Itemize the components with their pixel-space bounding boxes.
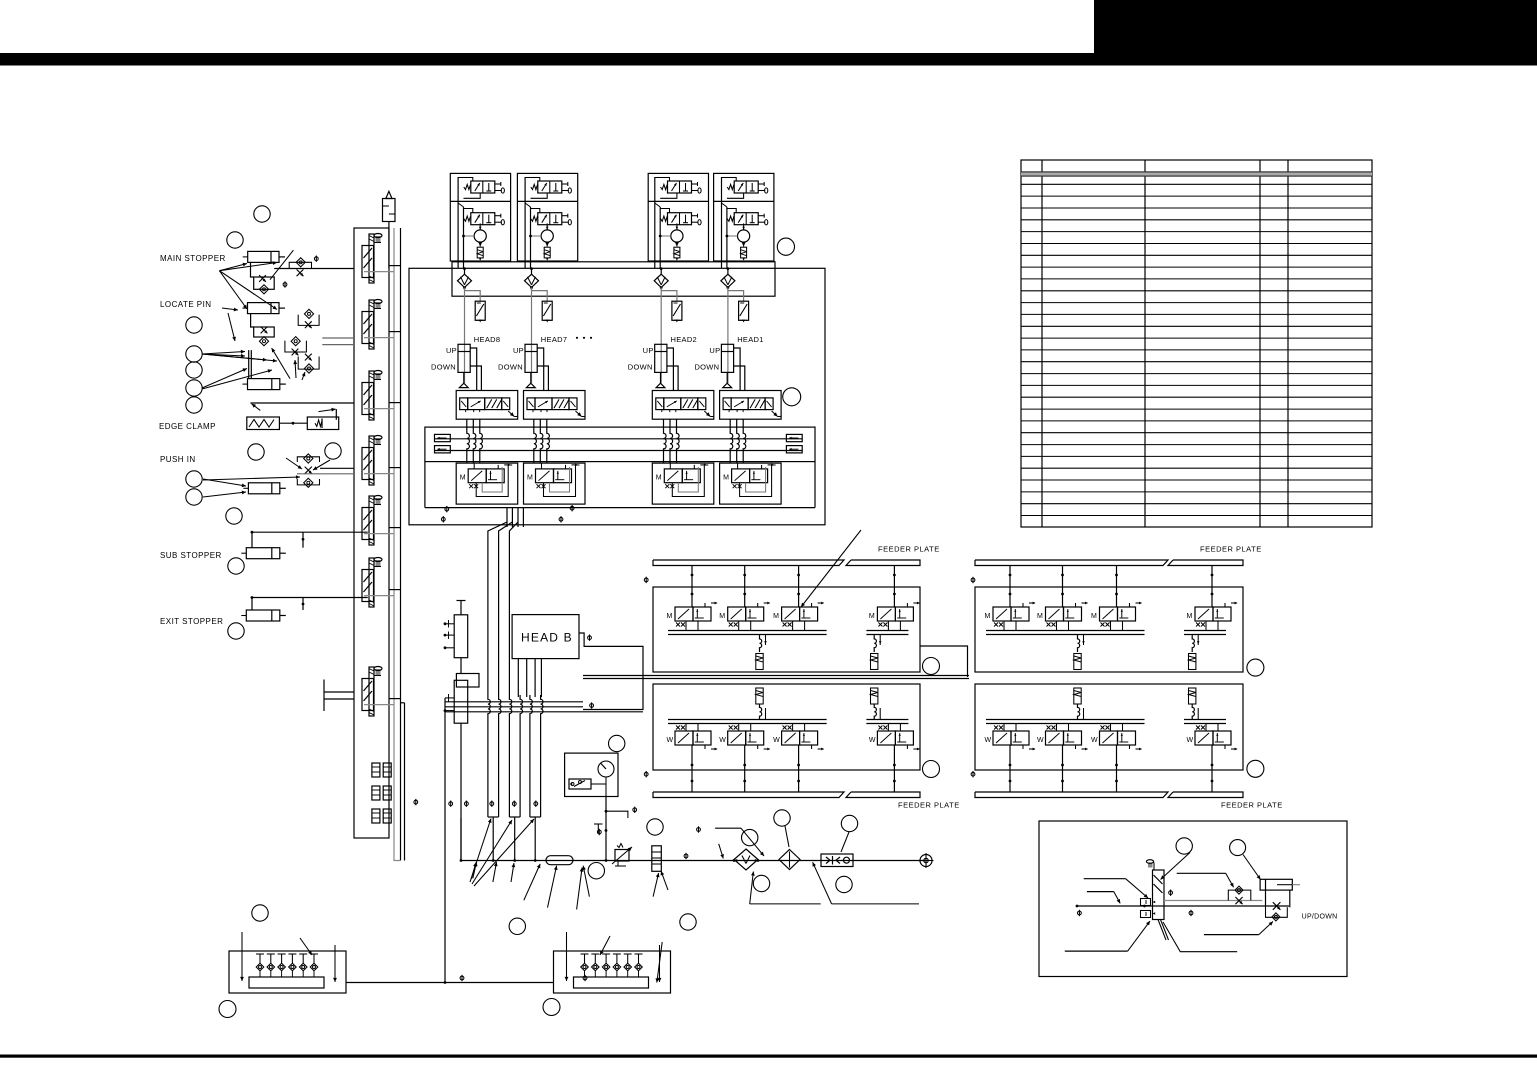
svg-text:UP: UP xyxy=(513,346,524,355)
svg-text:HEAD B: HEAD B xyxy=(521,631,573,645)
feed line head B to feeders xyxy=(579,633,643,710)
air filter HEAD1 xyxy=(721,267,744,301)
leader arrows MAIN STOPPER xyxy=(219,250,293,309)
solenoid valve HEAD7 blow xyxy=(531,181,572,193)
head box wiring HEAD7 xyxy=(525,177,547,268)
manifold column body xyxy=(354,228,389,838)
svg-text:W: W xyxy=(1187,737,1194,744)
balloon L2 xyxy=(227,232,243,248)
balloon L1 xyxy=(254,206,270,222)
valve 5/2 HEAD8 xyxy=(460,398,510,412)
balloon L13 xyxy=(228,558,244,574)
pressure switch box xyxy=(565,753,618,796)
solenoid valve HEAD1 blow xyxy=(727,181,768,193)
hose crossings HEAD1 xyxy=(730,419,746,463)
head cylinder HEAD1 xyxy=(721,344,733,387)
head cylinder HEAD7 xyxy=(525,344,537,387)
phi marks air line xyxy=(684,826,700,859)
manifold valve MV7 xyxy=(362,667,382,717)
svg-text:DOWN: DOWN xyxy=(498,363,523,372)
head section outer box xyxy=(409,268,825,525)
feeder valve stub FR-top-4 xyxy=(1211,566,1214,608)
drop line A xyxy=(444,698,446,983)
rail connector x=434.5 xyxy=(435,434,451,453)
head box wiring HEAD1 xyxy=(722,177,744,268)
solenoid valve HEAD1 vacuum xyxy=(727,213,768,225)
svg-text:HEAD8: HEAD8 xyxy=(474,335,501,344)
inset leader lines xyxy=(1065,853,1273,952)
feeder valve FR-bot-2 xyxy=(1037,726,1088,751)
label PUSH IN xyxy=(160,455,196,464)
feeder valve stub FL-top-2 xyxy=(743,566,746,608)
manifold valve MV3 xyxy=(362,371,382,421)
balloon air 1 xyxy=(609,735,625,751)
feeder valve FR-top-3 xyxy=(1091,602,1142,627)
balloon L14 xyxy=(228,623,244,639)
svg-text:M: M xyxy=(667,613,673,620)
feeder valve FL-top-3 xyxy=(773,602,824,627)
label HEAD1 xyxy=(737,335,764,344)
leader FEEDER PLATE xyxy=(801,530,861,607)
label FEEDER PLATE bottom-left xyxy=(898,801,960,810)
silencer HEAD8 xyxy=(477,242,483,260)
hose crossings HEAD2 xyxy=(664,419,680,463)
parts table grid xyxy=(1021,160,1372,527)
head cylinder HEAD2 xyxy=(655,344,667,387)
label FEEDER PLATE top-left xyxy=(878,545,940,554)
lower valve box HEAD1 xyxy=(720,463,782,504)
feeder valve stub FR-bot-2 xyxy=(1061,745,1064,792)
balloon L3 xyxy=(186,317,202,333)
quick coupler xyxy=(821,854,853,867)
svg-text:FEEDER PLATE: FEEDER PLATE xyxy=(1200,545,1262,554)
valve exit arrow HEAD8 xyxy=(508,411,517,417)
svg-text:SUB STOPPER: SUB STOPPER xyxy=(160,551,222,560)
valve exit arrow HEAD2 xyxy=(704,411,713,417)
feeder drop FR-top-1 xyxy=(1074,635,1085,670)
svg-text:UP: UP xyxy=(643,346,654,355)
lower valve box HEAD8 xyxy=(456,463,518,504)
svg-text:M: M xyxy=(1187,613,1193,620)
svg-text:M: M xyxy=(460,475,466,482)
head box wiring HEAD2 xyxy=(655,177,677,268)
air main line xyxy=(461,860,926,862)
svg-text:FEEDER PLATE: FEEDER PLATE xyxy=(878,545,940,554)
svg-text:M: M xyxy=(527,475,533,482)
svg-text:UP: UP xyxy=(709,346,720,355)
svg-text:W: W xyxy=(985,737,992,744)
bundle tube pairs xyxy=(488,718,541,817)
inset main line xyxy=(1076,905,1289,908)
svg-text:W: W xyxy=(773,737,780,744)
rail connector x=786.4 xyxy=(786,434,802,453)
head air line HEAD7 xyxy=(531,288,533,383)
inset phi marks xyxy=(1078,890,1193,917)
svg-text:FEEDER PLATE: FEEDER PLATE xyxy=(898,801,960,810)
balloon L7 xyxy=(186,397,202,413)
label UP HEAD7 xyxy=(513,346,524,355)
feeder drop FL-bot-2 xyxy=(871,688,881,720)
label FEEDER PLATE bottom-right xyxy=(1221,801,1283,810)
bundle hoses upper xyxy=(488,522,543,718)
manifold valve MV4 xyxy=(362,436,382,486)
balloon L9 xyxy=(325,443,341,459)
bundle drop tubes xyxy=(492,817,537,862)
manifold rail elbow to bundle xyxy=(394,838,401,861)
manifold valve MV5 xyxy=(362,496,382,546)
label EXIT STOPPER xyxy=(160,617,223,626)
leader arrows air line xyxy=(473,862,668,909)
svg-text:DOWN: DOWN xyxy=(431,363,456,372)
balloon feeder 3 xyxy=(923,761,940,778)
drain filter column xyxy=(652,846,662,872)
svg-text:HEAD1: HEAD1 xyxy=(737,335,764,344)
label UP HEAD1 xyxy=(709,346,720,355)
manifold rail gray xyxy=(393,228,395,838)
feeder valve FR-bot-3 xyxy=(1091,726,1142,751)
balloon manifold 3 xyxy=(543,999,560,1016)
balloon L8 xyxy=(248,444,264,460)
cylinder MAIN STOPPER xyxy=(243,251,354,294)
feeder box FL-bot xyxy=(653,684,920,770)
label UP HEAD8 xyxy=(446,346,457,355)
feeder valve stub FL-bot-1 xyxy=(691,745,694,792)
lower valve HEAD2 xyxy=(656,464,707,489)
feeder valve stub FL-top-1 xyxy=(691,566,694,608)
spare port lines xyxy=(324,680,354,712)
valve stack upper xyxy=(444,601,468,658)
svg-text:FEEDER PLATE: FEEDER PLATE xyxy=(1221,801,1283,810)
lower valve HEAD7 xyxy=(527,464,578,489)
feeder valve stub FR-top-1 xyxy=(1009,566,1012,608)
inset gray line xyxy=(1164,900,1262,902)
feeder valve FR-top-4 xyxy=(1187,602,1238,627)
label FEEDER PLATE top-right xyxy=(1200,545,1262,554)
balloon air 4 xyxy=(742,829,758,845)
manifold valve MV7 port lines xyxy=(364,699,401,705)
feeder rails FR-top xyxy=(986,621,1226,635)
svg-text:M: M xyxy=(656,475,662,482)
air filter HEAD7 xyxy=(525,267,548,301)
head air line HEAD2 xyxy=(660,288,662,383)
valve stack bracket xyxy=(456,658,479,687)
feeder valve stub FL-top-3 xyxy=(797,566,800,608)
hose band line 2 xyxy=(445,706,583,708)
feeder valve stub FR-bot-4 xyxy=(1211,745,1214,792)
feeder valve FR-top-2 xyxy=(1037,602,1088,627)
manifold valve MV1 port lines xyxy=(364,266,401,272)
svg-text:M: M xyxy=(773,613,779,620)
balloon L10 xyxy=(186,471,202,487)
phi marks head bottom xyxy=(441,505,574,523)
bottom border line xyxy=(0,1055,1537,1058)
inset box xyxy=(1039,821,1347,977)
label DOWN HEAD2 xyxy=(628,363,653,372)
feeder bar FR-top xyxy=(975,560,1243,566)
silencer HEAD1 xyxy=(741,242,747,260)
label MAIN STOPPER xyxy=(160,254,226,263)
label UP HEAD2 xyxy=(643,346,654,355)
feeder valve FL-bot-1 xyxy=(667,726,718,751)
feeder valve FL-top-4 xyxy=(869,602,920,627)
svg-text:M: M xyxy=(1091,613,1097,620)
svg-text:W: W xyxy=(719,737,726,744)
vacuum ejector HEAD7 xyxy=(529,223,553,242)
air filter HEAD8 xyxy=(458,267,481,301)
shutoff valve HEAD8 xyxy=(475,301,485,322)
head supply box HEAD7 xyxy=(517,173,577,261)
cylinder SUB STOPPER xyxy=(241,531,367,559)
balloon L11 xyxy=(186,489,202,505)
lower valve wiring HEAD2 xyxy=(670,463,708,496)
feeder drop FL-top-2 xyxy=(871,635,882,670)
head distribution rails xyxy=(425,427,815,462)
vacuum ejector HEAD1 xyxy=(726,223,750,242)
drop line B xyxy=(460,723,463,862)
svg-text:MAIN STOPPER: MAIN STOPPER xyxy=(160,254,226,263)
feeder box FL-top xyxy=(653,587,920,672)
title block header bar xyxy=(0,53,1537,66)
phi head B right xyxy=(588,635,594,709)
svg-text:M: M xyxy=(723,475,729,482)
inset balloon 1 xyxy=(1176,838,1192,854)
svg-text:PUSH IN: PUSH IN xyxy=(160,455,196,464)
hose crossings HEAD7 xyxy=(534,419,550,463)
head box wiring HEAD8 xyxy=(458,177,480,268)
feeder valve FR-bot-4 xyxy=(1187,726,1238,751)
feeder valve FR-bot-1 xyxy=(985,726,1036,751)
valve 5/2 HEAD7 xyxy=(527,398,577,412)
lubricator unit xyxy=(779,850,800,870)
balloon L12 xyxy=(226,508,242,524)
feeder valve FL-bot-2 xyxy=(719,726,770,751)
regulator xyxy=(612,844,632,867)
bundle leader arrows xyxy=(470,819,534,887)
balloon air 2 xyxy=(647,819,663,835)
balloon head valve xyxy=(783,388,801,406)
lower valve wiring HEAD7 xyxy=(542,463,580,496)
phi marks feeder xyxy=(644,577,975,778)
label HEAD7 xyxy=(541,335,568,344)
manifold valve MV2 port lines xyxy=(364,332,401,338)
solenoid valve HEAD8 vacuum xyxy=(464,213,505,225)
lower valve box HEAD7 xyxy=(524,463,586,504)
svg-text:M: M xyxy=(869,613,875,620)
HEAD B box xyxy=(512,615,579,659)
label DOWN HEAD7 xyxy=(498,363,523,372)
leader arrows PUSH IN xyxy=(203,475,300,497)
inline dryer oval xyxy=(546,856,573,865)
silencer HEAD2 xyxy=(674,242,680,260)
inset cylinder xyxy=(1260,879,1300,907)
phi marks bundle xyxy=(465,801,538,807)
hose band line 3 xyxy=(445,711,643,713)
svg-text:EXIT STOPPER: EXIT STOPPER xyxy=(160,617,223,626)
manifold valve MV1 xyxy=(362,234,382,284)
svg-text:UP/DOWN: UP/DOWN xyxy=(1302,913,1338,920)
feeder mid supply line xyxy=(583,676,969,679)
head air line HEAD8 xyxy=(464,288,466,383)
feeder valve FL-top-2 xyxy=(719,602,770,627)
hose band line 1 xyxy=(445,701,583,703)
feeder box FR-top xyxy=(975,587,1243,672)
balloon air 5 xyxy=(774,810,790,826)
valve stack lower xyxy=(444,680,468,723)
balloon head top xyxy=(777,238,794,255)
feeder rails FL-top xyxy=(668,621,908,635)
head supply stubs xyxy=(507,508,523,527)
solenoid valve HEAD2 vacuum xyxy=(661,213,702,225)
balloon L5 xyxy=(186,362,202,378)
feeder valve stub FR-bot-1 xyxy=(1009,745,1012,792)
balloon air 6 xyxy=(841,815,857,831)
pilot lines HEAD7 xyxy=(537,348,548,391)
pilot lines HEAD8 xyxy=(470,348,481,391)
label SUB STOPPER xyxy=(160,551,222,560)
phi marks left drop xyxy=(414,799,453,807)
feeder rails FR-bot xyxy=(986,720,1226,732)
HEAD B label xyxy=(521,631,573,645)
label LOCATE PIN xyxy=(160,300,211,309)
solenoid valve HEAD2 blow xyxy=(661,181,702,193)
balloon feeder 1 xyxy=(923,658,940,675)
feeder valve stub FR-top-2 xyxy=(1061,566,1064,608)
filter unit xyxy=(733,849,760,870)
feeder bar FR-bot xyxy=(975,792,1243,798)
air filter HEAD2 xyxy=(654,267,677,301)
balloon manifold 1 xyxy=(252,905,268,921)
inset pilot valve xyxy=(1141,860,1169,940)
inset label UP/DOWN xyxy=(1302,913,1338,920)
ellipsis dots xyxy=(576,337,592,339)
inset flow controls xyxy=(1228,886,1287,921)
feeder valve stub FL-bot-4 xyxy=(893,745,896,792)
feeder drop FR-bot-2 xyxy=(1189,688,1199,720)
feeder valve stub FL-bot-2 xyxy=(743,745,746,792)
vacuum ejector HEAD2 xyxy=(659,223,683,242)
cylinder EXIT STOPPER xyxy=(241,596,367,621)
svg-text:M: M xyxy=(719,613,725,620)
HEAD B outlet lines xyxy=(518,659,541,697)
lower valve wiring HEAD8 xyxy=(474,463,512,496)
valve exit arrow HEAD7 xyxy=(576,411,585,417)
feeder bar FL-bot xyxy=(653,792,920,798)
svg-text:M: M xyxy=(1037,613,1043,620)
head box lower lines xyxy=(425,462,815,508)
balloon manifold 2 xyxy=(219,1001,236,1018)
valve exit arrow HEAD1 xyxy=(772,411,781,417)
label DOWN HEAD8 xyxy=(431,363,456,372)
feeder right hook xyxy=(920,646,968,677)
svg-text:W: W xyxy=(1091,737,1098,744)
manifold valve MV6 port lines xyxy=(364,590,401,596)
head supply box HEAD2 xyxy=(648,173,708,261)
head air line HEAD1 xyxy=(727,288,729,383)
head supply box HEAD1 xyxy=(714,173,774,261)
feeder valve FL-bot-4 xyxy=(869,726,920,751)
manifold blanking plates xyxy=(372,763,391,823)
hose crossings HEAD8 xyxy=(467,419,483,463)
lower valve box HEAD2 xyxy=(652,463,714,504)
feeder valve FR-top-1 xyxy=(985,602,1036,627)
feeder box FR-bot xyxy=(975,684,1243,770)
feeder drop FR-top-2 xyxy=(1189,635,1200,670)
leader manifold left xyxy=(300,863,477,956)
feeder bar FL-top xyxy=(653,560,920,566)
title block box top right xyxy=(1094,0,1537,54)
solenoid valve HEAD8 blow xyxy=(464,181,505,193)
manifold valve MV4 port lines xyxy=(364,468,401,474)
head manifold band xyxy=(452,262,775,296)
feeder valve FL-bot-3 xyxy=(773,726,824,751)
shutoff valve HEAD7 xyxy=(542,301,552,322)
pilot lines HEAD2 xyxy=(667,348,678,391)
manifold rail xyxy=(400,228,402,861)
callout elbows air line xyxy=(715,826,919,904)
label DOWN HEAD1 xyxy=(694,363,719,372)
vacuum ejector HEAD8 xyxy=(462,223,486,242)
valve 5/2 HEAD1 xyxy=(723,398,773,412)
supply port symbol xyxy=(919,853,934,868)
actuator EDGE CLAMP xyxy=(247,403,354,430)
manifold block center xyxy=(554,932,671,993)
balloon feeder 2 xyxy=(1247,659,1264,676)
cylinder PUSH IN xyxy=(243,454,354,494)
feeder valve FL-top-1 xyxy=(667,602,718,627)
svg-text:HEAD2: HEAD2 xyxy=(671,335,698,344)
svg-text:EDGE CLAMP: EDGE CLAMP xyxy=(159,422,216,431)
balloon feeder 4 xyxy=(1247,760,1264,777)
pilot lines HEAD1 xyxy=(734,348,745,391)
leader manifold center xyxy=(600,936,662,983)
manifold block left xyxy=(229,932,346,993)
balloon air 8 xyxy=(836,876,852,892)
cylinder LOCATE PIN 2 xyxy=(243,379,286,390)
solenoid valve HEAD7 vacuum xyxy=(531,213,572,225)
svg-text:W: W xyxy=(869,737,876,744)
gauge drop line xyxy=(594,797,637,862)
head supply box HEAD8 xyxy=(450,173,510,261)
pressure source xyxy=(383,191,396,268)
shutoff valve HEAD2 xyxy=(672,301,682,322)
svg-text:LOCATE PIN: LOCATE PIN xyxy=(160,300,211,309)
balloon air 3 xyxy=(588,863,604,879)
valve box HEAD7 xyxy=(524,391,586,420)
balloon L6 xyxy=(186,380,202,396)
svg-text:UP: UP xyxy=(446,346,457,355)
manifold valve MV2 xyxy=(362,300,382,350)
inset balloon 2 xyxy=(1230,840,1246,856)
label EDGE CLAMP xyxy=(159,422,216,431)
feeder valve stub FL-bot-3 xyxy=(797,745,800,792)
svg-text:HEAD7: HEAD7 xyxy=(541,335,568,344)
svg-text:DOWN: DOWN xyxy=(694,363,719,372)
balloon air 9 xyxy=(509,918,525,934)
lower valve HEAD8 xyxy=(460,464,511,489)
balloon air 10 xyxy=(680,914,696,930)
balloon air 7 xyxy=(753,875,769,891)
feeder drop FL-bot-1 xyxy=(756,688,766,720)
label HEAD2 xyxy=(671,335,698,344)
feeder valve stub FR-top-3 xyxy=(1115,566,1118,608)
lower valve HEAD1 xyxy=(723,464,774,489)
shutoff valve HEAD1 xyxy=(739,301,749,322)
feeder valve stub FR-bot-3 xyxy=(1115,745,1118,792)
valve box HEAD8 xyxy=(456,391,518,420)
valve 5/2 HEAD2 xyxy=(656,398,706,412)
feeder valve stub FL-top-4 xyxy=(893,566,896,608)
svg-text:DOWN: DOWN xyxy=(628,363,653,372)
